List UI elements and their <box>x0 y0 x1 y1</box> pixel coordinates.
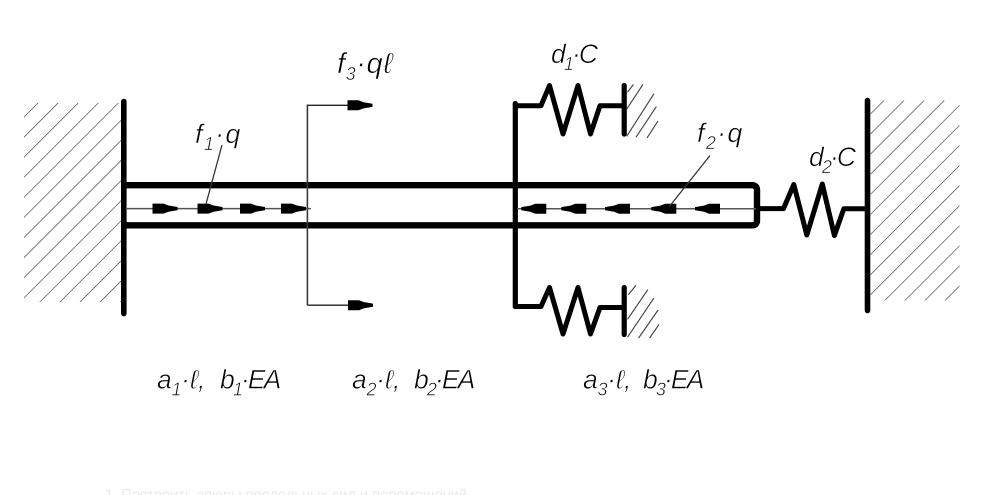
svg-text:b3·EA: b3·EA <box>643 365 704 400</box>
svg-text:a1·ℓ,: a1·ℓ, <box>157 365 205 400</box>
svg-text:f2·q: f2·q <box>697 118 744 153</box>
svg-text:b2·EA: b2·EA <box>414 365 475 400</box>
svg-text:f1·q: f1·q <box>195 119 242 154</box>
svg-text:a2·ℓ,: a2·ℓ, <box>352 365 400 400</box>
svg-text:b1·EA: b1·EA <box>220 365 281 400</box>
svg-text:f3·qℓ: f3·qℓ <box>337 48 394 84</box>
svg-text:d1·C: d1·C <box>551 39 599 74</box>
svg-text:1. Построить эпюры продольных: 1. Построить эпюры продольных сил и пере… <box>105 487 467 495</box>
svg-text:d2·C: d2·C <box>809 142 857 177</box>
svg-text:a3·ℓ,: a3·ℓ, <box>583 365 631 400</box>
